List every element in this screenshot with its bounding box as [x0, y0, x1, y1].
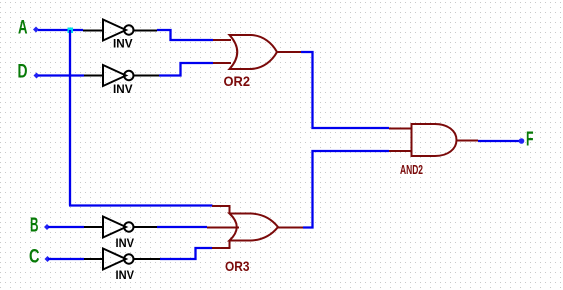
svg-text:C: C: [29, 247, 40, 268]
svg-text:OR2: OR2: [224, 73, 251, 89]
wire INV1 to OR2 input 1: [157, 30, 213, 40]
svg-text:OR3: OR3: [225, 258, 250, 274]
inverter INV2: [103, 65, 134, 96]
svg-text:INV: INV: [113, 82, 133, 96]
inverter INV3: [103, 217, 134, 251]
input terminal D: [34, 73, 40, 79]
wire INV4 to OR3 input 3: [160, 248, 212, 259]
wire to OR3 top input: [69, 204, 213, 206]
svg-text:INV: INV: [116, 268, 135, 282]
pin wire INV2 output: [134, 75, 160, 77]
svg-text:AND2: AND2: [400, 162, 423, 177]
pin wire INV4 input: [84, 258, 103, 260]
svg-text:INV: INV: [116, 236, 135, 250]
pin wire INV4 output: [134, 258, 161, 260]
pin wire INV1 output: [134, 30, 158, 32]
inverter INV1: [103, 20, 134, 51]
wire C to INV4: [48, 258, 84, 260]
input terminal B: [44, 224, 50, 230]
wire OR2 to AND2 input 1: [301, 52, 389, 128]
svg-text:F: F: [526, 129, 534, 151]
wire A to junction: [38, 29, 83, 31]
pin wire OR2 output: [277, 51, 301, 53]
wire AND2 to F: [478, 140, 521, 142]
pin wire AND2 input 2: [389, 150, 412, 152]
pin wire INV3 input: [84, 226, 103, 228]
or-gate OR2: [213, 35, 277, 89]
pin wire OR3 output: [278, 227, 303, 229]
input terminal C: [45, 256, 51, 262]
wire B to INV3: [48, 226, 84, 228]
pin wire INV1 input: [83, 30, 103, 32]
input terminal A: [33, 27, 39, 33]
svg-text:D: D: [18, 62, 28, 83]
pin wire INV2 input: [84, 75, 103, 77]
output terminal F: [519, 138, 525, 144]
wire junction A down: [69, 30, 71, 206]
pin wire INV3 output: [134, 226, 158, 228]
svg-text:A: A: [18, 18, 28, 39]
pin wire AND2 output: [457, 140, 479, 142]
wire INV2 to OR2 input 2: [159, 63, 213, 76]
junction A: [68, 28, 74, 34]
or-gate OR3: [207, 206, 278, 274]
wire OR3 to AND2 input 2: [303, 151, 389, 228]
and-gate AND2: [400, 124, 457, 177]
inverter INV4: [103, 249, 134, 283]
pin wire AND2 input 1: [389, 128, 412, 130]
svg-text:B: B: [30, 215, 39, 237]
wire D to INV2: [38, 74, 84, 76]
wire INV3 to OR3 input 2: [157, 226, 207, 228]
svg-text:INV: INV: [113, 37, 133, 51]
